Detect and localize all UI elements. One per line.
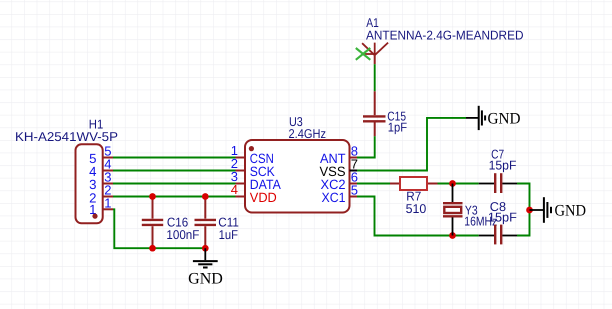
wire H1.4 to U3 SCK: [113, 170, 236, 172]
U3 pin 8 ANT: [350, 157, 358, 159]
svg-text:1: 1: [104, 195, 111, 210]
crystal Y3: [443, 184, 497, 236]
H1 pin 5: [103, 157, 113, 159]
svg-text:4: 4: [231, 182, 238, 197]
U3 pin 6 XC2: [350, 183, 358, 185]
capacitor C8: [479, 199, 517, 244]
wire C7 to right rail: [517, 184, 530, 236]
U3 pin 5 XC1: [350, 196, 358, 198]
svg-text:5: 5: [351, 182, 358, 197]
junction C11 bottom / ground tap: [202, 245, 209, 252]
capacitor C7: [479, 146, 517, 193]
wire XC1 down to bottom rail: [357, 197, 479, 236]
capacitor C11: [195, 197, 239, 249]
H1 pin 1: [103, 208, 113, 210]
U3 pin 4 VDD: [236, 196, 246, 198]
ground flag GND top right: [466, 106, 521, 130]
svg-text:GND: GND: [188, 271, 223, 288]
junction C16 bottom: [149, 245, 156, 252]
svg-text:GND: GND: [555, 202, 587, 219]
svg-text:1uF: 1uF: [219, 227, 239, 242]
U3 pin 7 VSS: [350, 170, 358, 172]
junction XC2 node: [449, 180, 456, 187]
antenna symbol: [362, 43, 388, 56]
svg-text:XC1: XC1: [322, 190, 346, 205]
wire H1.3 to U3 DATA: [113, 183, 236, 185]
svg-text:KH-A2541WV-5P: KH-A2541WV-5P: [15, 129, 118, 144]
wire H1.1 down to ground rail: [113, 209, 205, 248]
antenna A1: [356, 15, 524, 64]
junction C11 top: [202, 193, 209, 200]
svg-text:GND: GND: [488, 110, 521, 127]
svg-text:510: 510: [406, 201, 427, 216]
wire H1.2 to U3 VDD: [113, 196, 236, 198]
capacitor C16: [142, 197, 200, 249]
U3 pin1 marker dot: [249, 146, 254, 151]
junction C16 top: [149, 193, 156, 200]
svg-text:15pF: 15pF: [489, 158, 517, 173]
no-connect X mark: [356, 48, 371, 60]
wire XC2 to R7: [357, 183, 390, 185]
wire R7 to C7: [438, 183, 479, 185]
svg-text:100nF: 100nF: [166, 227, 199, 242]
capacitor C15: [363, 91, 407, 136]
connector H1: [15, 116, 118, 223]
resistor R7: [390, 177, 438, 216]
svg-text:2.4GHz: 2.4GHz: [289, 126, 327, 141]
H1 pin1 marker dot: [92, 214, 97, 219]
svg-text:ANTENNA-2.4G-MEANDRED: ANTENNA-2.4G-MEANDRED: [366, 28, 524, 43]
op IC U3: [231, 114, 358, 213]
H1 pin 2: [103, 196, 113, 198]
ground flag GND right: [530, 197, 587, 223]
wire C15 to U3 ANT pin8: [357, 136, 375, 157]
H1 pin 3: [103, 183, 113, 185]
svg-text:VDD: VDD: [250, 190, 277, 205]
wire antenna to C15: [374, 64, 376, 91]
wire VSS to GND flag: [357, 118, 466, 171]
H1 pin 4: [103, 170, 113, 172]
junction XC1 node: [449, 232, 456, 239]
U3 pin 3 DATA: [236, 183, 246, 185]
svg-text:15pF: 15pF: [488, 210, 517, 225]
wire H1.5 to U3 CSN: [113, 157, 236, 159]
U3 pin 2 SCK: [236, 170, 246, 172]
U3 pin 1 CSN: [236, 157, 246, 159]
svg-text:1pF: 1pF: [388, 119, 407, 134]
antenna pin 1: [363, 53, 375, 55]
junction right rail / ground tap: [526, 207, 533, 214]
ground GND bottom: [188, 248, 223, 287]
